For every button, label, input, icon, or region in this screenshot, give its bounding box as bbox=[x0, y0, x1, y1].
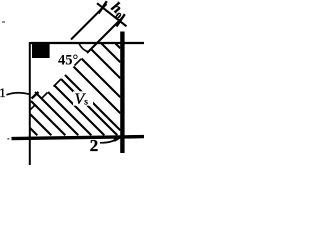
boundary dash 1 bbox=[75, 59, 82, 66]
angle arc 45 bbox=[79, 44, 89, 52]
svg-text:2: 2 bbox=[90, 136, 99, 155]
tank top wall line bbox=[30, 42, 144, 44]
arrowhead of leader 2 bbox=[113, 137, 121, 142]
tank left wall line bbox=[29, 42, 31, 165]
hatch c26 bbox=[82, 59, 121, 98]
tick X2 bbox=[117, 14, 125, 26]
leader for label 1 bbox=[7, 93, 30, 95]
hatch c58 bbox=[101, 43, 120, 62]
tick X1 bbox=[99, 1, 107, 13]
boundary dash 4 bbox=[31, 105, 36, 110]
hatch c-84 bbox=[30, 114, 51, 135]
label h0 (rotated) bbox=[106, 0, 128, 22]
hatch c42 bbox=[91, 49, 120, 78]
hatch c-31 bbox=[55, 86, 105, 136]
boundary dash 3 bbox=[42, 93, 48, 99]
leader for label 2 bbox=[100, 140, 116, 143]
speck near bottom line start bbox=[7, 138, 9, 140]
hatch c-98 bbox=[30, 128, 37, 135]
hatch c10 bbox=[74, 67, 121, 114]
tank right wall line (thick) bbox=[120, 32, 124, 154]
white gap for Vs bbox=[73, 91, 93, 105]
hatch c72 bbox=[115, 43, 120, 48]
boundary dash 2 bbox=[54, 79, 62, 87]
hatch c-18 bbox=[61, 79, 117, 135]
hatch c-57 bbox=[35, 92, 78, 135]
tank bottom wall line (thick) bbox=[12, 137, 145, 139]
hatch c-44 bbox=[48, 92, 91, 135]
slot edge line B (45 deg through tank) bbox=[87, 17, 123, 53]
dimension line h0 bbox=[97, 3, 127, 26]
boundary dash wedge near left wall bbox=[32, 92, 39, 99]
filled corner block bbox=[32, 43, 50, 58]
svg-text:45°: 45° bbox=[58, 52, 79, 68]
slot edge line A (extension above tank) bbox=[71, 4, 107, 40]
svg-text:1: 1 bbox=[0, 85, 6, 100]
hatch c-70 bbox=[31, 101, 65, 135]
hatch c-5 bbox=[65, 75, 120, 130]
speck top-left bbox=[2, 21, 5, 23]
